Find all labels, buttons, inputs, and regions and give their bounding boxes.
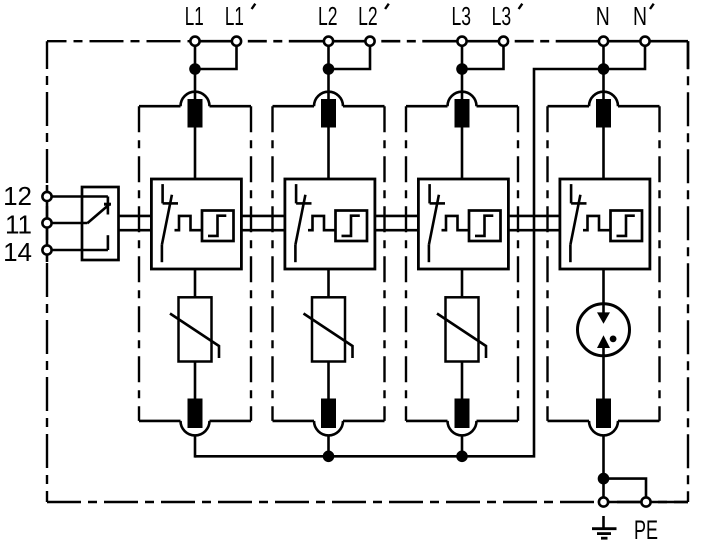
svg-text:L2: L2 bbox=[318, 1, 338, 31]
svg-text:L1: L1 bbox=[225, 1, 244, 31]
svg-text:L3: L3 bbox=[452, 1, 472, 31]
svg-text:12: 12 bbox=[3, 181, 32, 211]
svg-text:11: 11 bbox=[5, 209, 32, 239]
svg-text:PE: PE bbox=[634, 515, 658, 545]
svg-text:N: N bbox=[633, 1, 647, 31]
svg-text:L1: L1 bbox=[185, 1, 204, 31]
svg-text:L3: L3 bbox=[492, 1, 512, 31]
svg-text:14: 14 bbox=[3, 237, 32, 267]
svg-text:L2: L2 bbox=[358, 1, 378, 31]
svg-text:N: N bbox=[596, 1, 610, 31]
